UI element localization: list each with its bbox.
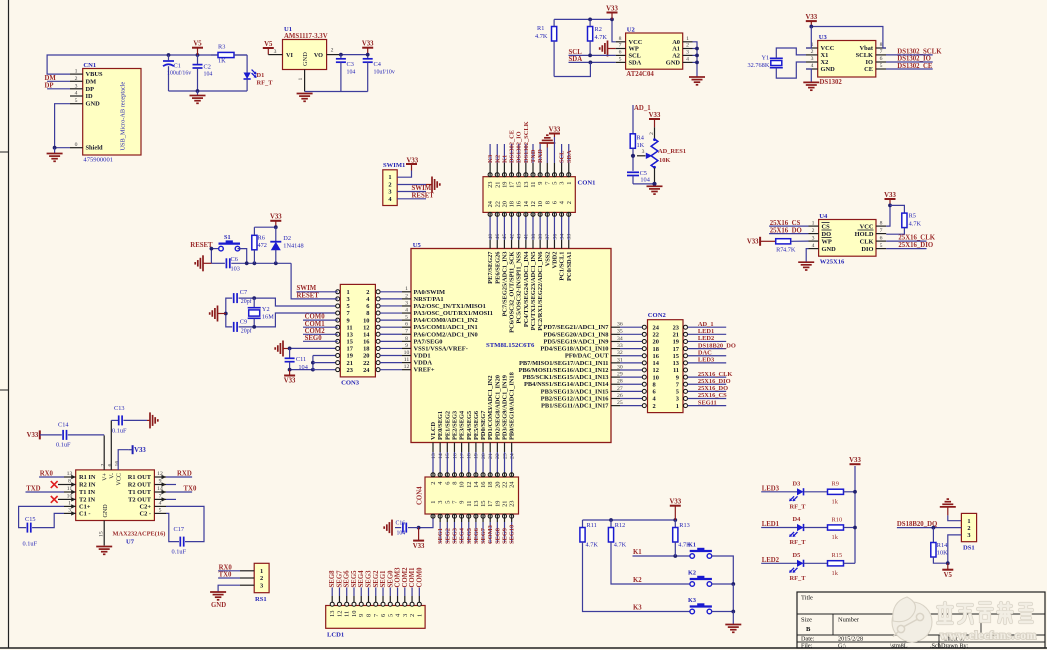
wire S1 right down	[238, 249, 247, 264]
svg-text:V+: V+	[103, 472, 109, 480]
svg-text:PE4/SEG5: PE4/SEG5	[466, 411, 473, 440]
svg-text:V33: V33	[27, 432, 39, 439]
wire RS1 pin3 to ground	[218, 585, 240, 591]
svg-text:12: 12	[336, 611, 343, 617]
svg-text:4.7K: 4.7K	[586, 542, 599, 549]
svg-text:17: 17	[509, 181, 516, 188]
wire K1	[633, 555, 691, 557]
svg-text:10: 10	[653, 374, 659, 381]
LED D4 RF_T	[797, 524, 804, 531]
resistor R5 4.7K	[902, 213, 907, 228]
wire reset to CON3	[291, 263, 296, 299]
svg-text:20: 20	[501, 201, 508, 207]
net label SEG2 at LCD1	[375, 588, 377, 597]
svg-text:RESET: RESET	[297, 292, 320, 299]
svg-text:4: 4	[75, 91, 78, 97]
wire reset rail	[231, 262, 291, 264]
svg-text:1k: 1k	[832, 534, 839, 541]
svg-text:R9: R9	[832, 481, 839, 488]
svg-text:Drawn By:: Drawn By:	[941, 642, 969, 649]
capacitor C11 104	[289, 348, 291, 358]
svg-text:C4: C4	[374, 61, 382, 68]
svg-text:R6: R6	[258, 235, 265, 242]
net label SEG3 at CON4	[453, 519, 455, 523]
svg-text:DS1302: DS1302	[820, 79, 843, 86]
svg-text:0.1uF: 0.1uF	[23, 541, 38, 548]
svg-text:9: 9	[459, 501, 466, 504]
svg-text:11: 11	[530, 182, 537, 188]
svg-text:4.7K: 4.7K	[535, 33, 548, 40]
svg-text:10K: 10K	[937, 550, 948, 557]
svg-text:1: 1	[388, 174, 391, 181]
svg-text:SEG8: SEG8	[329, 570, 336, 588]
svg-text:AD_1: AD_1	[698, 321, 714, 328]
capacitor C7 20pf	[233, 293, 235, 303]
svg-text:C9: C9	[240, 319, 247, 326]
svg-text:SEG5: SEG5	[351, 570, 358, 588]
power V33 U2	[607, 12, 618, 14]
svg-text:SEG6: SEG6	[344, 570, 351, 588]
svg-text:VO: VO	[314, 52, 323, 59]
svg-text:AMS1117-3.3V: AMS1117-3.3V	[284, 33, 328, 40]
svg-text:C15: C15	[25, 516, 36, 523]
svg-text:22: 22	[502, 482, 509, 488]
svg-text:45: 45	[502, 234, 508, 240]
svg-text:HOLD: HOLD	[855, 231, 874, 238]
wire K1 right	[711, 556, 733, 584]
IC U7 MAX232ACPE(16)	[76, 470, 155, 521]
svg-text:SCL: SCL	[559, 151, 566, 163]
resistor R4 1K	[630, 134, 635, 149]
net label SEG3 at LCD1	[368, 588, 370, 597]
svg-text:16: 16	[363, 339, 370, 346]
svg-text:8: 8	[68, 479, 71, 485]
pin 15 GND wire	[103, 521, 105, 546]
svg-text:46: 46	[495, 234, 501, 240]
svg-text:16: 16	[115, 461, 121, 467]
wire CON3 pins 19,21,23	[312, 356, 314, 370]
svg-text:43: 43	[517, 234, 523, 240]
wiper of AD_RES1	[637, 155, 646, 157]
svg-text:SEG11: SEG11	[698, 399, 717, 406]
svg-text:VBUS: VBUS	[86, 71, 103, 78]
svg-text:C3: C3	[347, 61, 354, 68]
svg-text:DS1302_SCLK: DS1302_SCLK	[523, 121, 530, 163]
svg-text:1: 1	[566, 182, 573, 185]
wire LED3	[761, 491, 797, 493]
svg-text:8: 8	[366, 614, 373, 617]
wire R7 to WP	[791, 240, 809, 242]
capacitor C5 104	[627, 171, 639, 173]
svg-text:2: 2	[649, 132, 655, 135]
svg-text:www.elecfans.com: www.elecfans.com	[940, 628, 1037, 642]
svg-text:Size: Size	[801, 617, 812, 624]
svg-text:2: 2	[260, 575, 263, 582]
ground reset (sideways)	[202, 255, 204, 271]
svg-text:2: 2	[811, 49, 814, 55]
svg-text:V33: V33	[606, 5, 618, 12]
svg-text:0.1uF: 0.1uF	[112, 428, 127, 435]
svg-text:PD7/SEG21/ADC1_IN7: PD7/SEG21/ADC1_IN7	[544, 324, 610, 331]
pin VCC wire	[118, 450, 128, 470]
svg-text:IO: IO	[866, 59, 873, 66]
svg-text:PD2/SEG8/ADC1_IN20: PD2/SEG8/ADC1_IN20	[494, 375, 501, 440]
net label SEG11 at CON2	[688, 405, 727, 407]
wire Y1 to X1	[776, 48, 806, 58]
svg-text:R2: R2	[595, 26, 602, 33]
svg-text:20pf: 20pf	[241, 298, 252, 305]
regulator U1 AMS1117-3.3V	[283, 40, 327, 70]
svg-text:SEG1: SEG1	[380, 570, 387, 588]
svg-text:PA0/SWIM: PA0/SWIM	[414, 289, 445, 296]
svg-text:14: 14	[473, 481, 480, 488]
svg-text:PD4/SEG18/ADC1_IN10: PD4/SEG18/ADC1_IN10	[540, 346, 608, 353]
svg-text:38: 38	[531, 234, 537, 240]
svg-text:1K: 1K	[637, 142, 645, 149]
ground USB rail	[197, 91, 199, 96]
svg-text:SEG1: SEG1	[437, 528, 444, 544]
svg-text:24: 24	[653, 324, 660, 331]
ground U2 A-pins	[689, 76, 705, 78]
svg-text:PD6/SEG20/ADC1_IN8: PD6/SEG20/ADC1_IN8	[544, 331, 609, 338]
svg-text:GND: GND	[666, 60, 681, 67]
svg-text:RF_T: RF_T	[790, 539, 807, 546]
net label COM1 at LCD1	[411, 588, 413, 597]
ground C16 (sideways)	[391, 520, 393, 536]
wire R9 to V33 rail	[844, 491, 856, 493]
capacitor C2 104	[197, 55, 199, 65]
svg-text:12: 12	[363, 324, 369, 331]
pin 3 U1	[268, 54, 282, 56]
svg-text:SEG3: SEG3	[366, 570, 373, 588]
svg-text:USB_Micro-AB receptacle: USB_Micro-AB receptacle	[120, 82, 127, 151]
svg-text:U5: U5	[413, 242, 422, 249]
ground U2 WP (sideways)	[607, 41, 609, 57]
svg-text:32.768K: 32.768K	[748, 62, 770, 69]
svg-text:14: 14	[363, 331, 370, 338]
svg-text:SEG4: SEG4	[358, 570, 365, 588]
wire C15 to C1-	[32, 513, 64, 527]
svg-text:V5: V5	[193, 41, 202, 48]
svg-text:X2: X2	[821, 59, 829, 66]
svg-text:1: 1	[298, 78, 304, 81]
ground Y2 (sideways)	[217, 306, 219, 322]
svg-text:VSS1/VSSA/VREF-: VSS1/VSSA/VREF-	[414, 345, 468, 352]
svg-text:5: 5	[676, 389, 679, 396]
svg-text:D4: D4	[793, 516, 802, 523]
svg-text:PE3/SEG4: PE3/SEG4	[459, 410, 466, 440]
svg-text:22: 22	[363, 360, 369, 367]
svg-text:5: 5	[880, 243, 883, 249]
svg-text:V33: V33	[549, 126, 561, 133]
svg-text:14: 14	[523, 200, 530, 207]
svg-text:4: 4	[405, 307, 408, 313]
net label SCL at CON1	[561, 144, 563, 163]
svg-text:R15: R15	[832, 552, 843, 559]
svg-text:3: 3	[559, 182, 566, 185]
svg-text:4.7K: 4.7K	[783, 247, 796, 254]
svg-text:34: 34	[559, 234, 565, 240]
power V33 at C4	[362, 47, 373, 49]
wire R10 to V33 rail	[844, 527, 856, 529]
svg-text:4: 4	[811, 63, 814, 69]
svg-text:PB5/SCK1/SEG15/ADC1_IN13: PB5/SCK1/SEG15/ADC1_IN13	[523, 374, 609, 381]
connector LCD1	[326, 606, 425, 629]
svg-text:SCLK: SCLK	[856, 52, 873, 59]
svg-text:LCD1: LCD1	[327, 632, 344, 639]
svg-text:3: 3	[260, 582, 263, 589]
svg-text:15: 15	[516, 182, 523, 188]
switch K3	[690, 609, 695, 614]
svg-text:R1 IN: R1 IN	[79, 474, 96, 481]
svg-text:17: 17	[673, 346, 680, 353]
svg-text:23: 23	[487, 182, 494, 188]
svg-text:C2+: C2+	[140, 504, 152, 511]
svg-text:Y2: Y2	[262, 306, 270, 313]
svg-text:8: 8	[880, 220, 883, 226]
svg-text:9: 9	[347, 317, 350, 324]
wire D3 to R9	[804, 491, 828, 493]
svg-text:11: 11	[347, 324, 353, 331]
svg-text:VCC: VCC	[117, 473, 123, 486]
svg-text:CON3: CON3	[341, 380, 360, 387]
svg-text:V33: V33	[884, 192, 896, 199]
net label TXD at CON1	[532, 144, 534, 163]
svg-text:23: 23	[347, 367, 353, 374]
svg-text:5: 5	[75, 98, 78, 104]
svg-text:3: 3	[402, 614, 409, 617]
svg-text:18: 18	[653, 346, 659, 353]
svg-text:V33: V33	[669, 499, 681, 506]
power V5 DS1 (below)	[942, 569, 953, 571]
svg-text:13: 13	[523, 182, 530, 188]
svg-text:COM1: COM1	[409, 567, 416, 588]
svg-text:GND: GND	[302, 52, 309, 66]
svg-text:5: 5	[347, 303, 350, 310]
svg-text:VREF+: VREF+	[414, 367, 435, 374]
svg-text:K3: K3	[688, 597, 696, 604]
svg-text:File:: File:	[801, 642, 813, 649]
svg-text:PE6/SEG26: PE6/SEG26	[494, 251, 501, 284]
net label SEG0 at LCD1	[389, 588, 391, 597]
svg-text:S1: S1	[224, 234, 231, 241]
svg-text:20pf: 20pf	[241, 328, 252, 335]
svg-text:B: B	[806, 626, 811, 633]
svg-text:V33: V33	[805, 14, 817, 21]
svg-text:2: 2	[409, 614, 416, 617]
svg-text:13: 13	[673, 360, 679, 367]
svg-text:D5: D5	[793, 552, 801, 559]
svg-text:7: 7	[159, 494, 162, 500]
ground U1	[297, 93, 313, 95]
svg-text:9: 9	[405, 343, 408, 349]
connector CON1	[483, 177, 575, 213]
svg-text:25X16_DIO: 25X16_DIO	[698, 378, 731, 385]
svg-text:21: 21	[673, 332, 679, 339]
svg-text:5: 5	[159, 508, 162, 514]
svg-text:5: 5	[405, 315, 408, 321]
net label 25X16_CS at CON2	[688, 398, 727, 400]
svg-text:2: 2	[686, 43, 689, 49]
svg-text:K2: K2	[688, 570, 696, 577]
svg-text:2: 2	[430, 482, 437, 485]
svg-text:1: 1	[75, 69, 78, 75]
svg-text:VDD1: VDD1	[414, 353, 431, 360]
svg-text:U3: U3	[819, 34, 828, 41]
svg-text:8: 8	[405, 336, 408, 342]
MCU U5 STM8L152C6T6	[411, 249, 611, 443]
svg-text:PA4/COM0/ADC1_IN2: PA4/COM0/ADC1_IN2	[414, 317, 478, 324]
svg-text:33: 33	[567, 234, 573, 240]
wire U1 ground rail	[305, 91, 368, 93]
svg-text:4: 4	[686, 57, 689, 63]
svg-text:SEG10: SEG10	[509, 525, 516, 544]
svg-text:DS18B20_DO: DS18B20_DO	[698, 342, 736, 349]
svg-text:R12: R12	[615, 522, 626, 529]
svg-text:RS1: RS1	[255, 596, 267, 603]
title block	[797, 592, 1045, 648]
svg-text:R13: R13	[679, 522, 690, 529]
svg-text:4: 4	[812, 243, 815, 249]
svg-text:37: 37	[545, 234, 551, 240]
svg-text:3: 3	[274, 49, 277, 55]
svg-text:15: 15	[347, 339, 353, 346]
switch K1	[690, 554, 695, 559]
net label LED2 at CON2	[688, 340, 727, 342]
svg-text:7: 7	[619, 43, 622, 49]
net label SEG5 at CON4	[468, 519, 470, 523]
svg-text:0.1uF: 0.1uF	[56, 442, 71, 449]
wire C11 to V33 node	[290, 369, 313, 371]
wire T2 OUT stub	[166, 498, 176, 500]
power V33 bar at R7	[759, 237, 761, 246]
svg-text:R3: R3	[218, 44, 225, 51]
svg-text:PA2/OSC_IN/TX1/MISO1: PA2/OSC_IN/TX1/MISO1	[414, 303, 486, 310]
connector CN1 USB_Micro-AB receptacle	[83, 69, 141, 156]
svg-text:RF_T: RF_T	[790, 503, 807, 510]
svg-text:8: 8	[451, 482, 458, 485]
svg-text:K1: K1	[501, 155, 508, 163]
svg-text:VLCD: VLCD	[430, 422, 437, 440]
svg-text:9: 9	[159, 479, 162, 485]
svg-text:G:\: G:\	[838, 642, 846, 649]
svg-text:24: 24	[487, 200, 494, 207]
net label SEG4 at LCD1	[360, 588, 362, 597]
svg-text:41: 41	[524, 234, 530, 240]
LED D5 RF_T	[797, 560, 804, 567]
svg-text:40: 40	[488, 234, 494, 240]
svg-text:10: 10	[351, 611, 358, 617]
wire DS1 pin1	[948, 515, 962, 520]
net label LED1 at CON2	[688, 333, 727, 335]
svg-text:T2 OUT: T2 OUT	[128, 497, 152, 504]
svg-text:SCL: SCL	[629, 53, 641, 60]
watermark logo elecfans	[892, 597, 932, 642]
svg-text:K2: K2	[494, 155, 501, 163]
wire V33 to U3 VCC and Vbat	[811, 27, 886, 49]
svg-text:13: 13	[431, 453, 437, 459]
svg-text:VDD2: VDD2	[551, 252, 558, 269]
ground CN1 shield	[54, 148, 56, 154]
power V33 U3	[806, 20, 817, 22]
svg-text:R1 OUT: R1 OUT	[128, 474, 152, 481]
capacitor C3 104	[340, 55, 342, 59]
resistor R12 4.7K	[610, 520, 612, 528]
svg-text:LED3: LED3	[698, 357, 714, 364]
svg-text:SDA: SDA	[566, 150, 573, 163]
svg-text:C2: C2	[204, 64, 211, 71]
svg-text:SEG9: SEG9	[502, 528, 509, 544]
svg-text:DS1302_CE: DS1302_CE	[509, 130, 516, 163]
svg-text:6: 6	[405, 322, 408, 328]
svg-text:D1: D1	[257, 72, 265, 79]
wire LED V33 rail	[854, 466, 856, 563]
svg-text:V33: V33	[413, 543, 425, 550]
svg-text:11: 11	[344, 611, 351, 617]
ground AD_RES1	[647, 185, 663, 187]
net label SEG5 at LCD1	[353, 588, 355, 597]
wire K2 right	[711, 583, 733, 585]
svg-text:CE: CE	[864, 66, 873, 73]
wire DS1 pin3	[948, 535, 962, 563]
svg-text:3: 3	[75, 83, 78, 89]
power V33 LEDs	[850, 463, 861, 465]
net label K2 at CON1	[496, 144, 498, 163]
svg-text:22: 22	[653, 332, 659, 339]
svg-text:5: 5	[880, 63, 883, 69]
svg-text:PE2/SEG3: PE2/SEG3	[451, 411, 458, 440]
LED D3 RF_T	[797, 488, 804, 495]
svg-text:22: 22	[494, 201, 501, 207]
svg-text:3: 3	[68, 508, 71, 514]
svg-text:16: 16	[516, 201, 523, 207]
ground U4	[806, 249, 808, 263]
svg-text:104: 104	[397, 531, 406, 537]
wire R1 to SDA	[554, 62, 590, 76]
svg-text:R2 IN: R2 IN	[79, 482, 96, 489]
svg-text:COM3: COM3	[487, 525, 494, 544]
svg-text:9: 9	[358, 614, 365, 617]
svg-text:1: 1	[686, 36, 689, 42]
svg-text:V5: V5	[944, 572, 953, 579]
svg-text:8: 8	[619, 36, 622, 42]
svg-text:PB1/SEG11/ADC1_IN17: PB1/SEG11/ADC1_IN17	[541, 403, 609, 410]
svg-text:SEG2: SEG2	[373, 570, 380, 588]
svg-text:PC3/TX1/SEG23/ADC1_IN5: PC3/TX1/SEG23/ADC1_IN5	[530, 252, 537, 331]
potentiometer AD_RES1 10K	[654, 127, 656, 139]
resistor R6 472	[252, 235, 257, 250]
wire C7 right to CON3 pin5	[239, 298, 338, 306]
wire U2 right pins to ground	[693, 42, 698, 77]
net label K1 at CON1	[503, 144, 505, 163]
svg-text:GND: GND	[86, 101, 101, 108]
net label COM2 at LCD1	[404, 588, 406, 597]
svg-text:CN1: CN1	[83, 62, 96, 69]
wire LED1	[761, 527, 797, 529]
svg-text:100uf/16v: 100uf/16v	[167, 70, 191, 77]
svg-text:16M: 16M	[262, 314, 274, 321]
svg-text:25X16_CLK: 25X16_CLK	[698, 371, 732, 378]
connector DS1	[961, 513, 976, 541]
svg-text:3: 3	[676, 396, 679, 403]
pin V- wire	[110, 420, 112, 470]
svg-text:V5: V5	[264, 41, 273, 48]
svg-text:R5: R5	[909, 213, 916, 220]
svg-text:CS: CS	[822, 223, 831, 230]
svg-text:LED1: LED1	[698, 328, 714, 335]
wire R15 to V33 rail	[844, 562, 856, 564]
power V33 at VCC (bar)	[132, 445, 134, 454]
